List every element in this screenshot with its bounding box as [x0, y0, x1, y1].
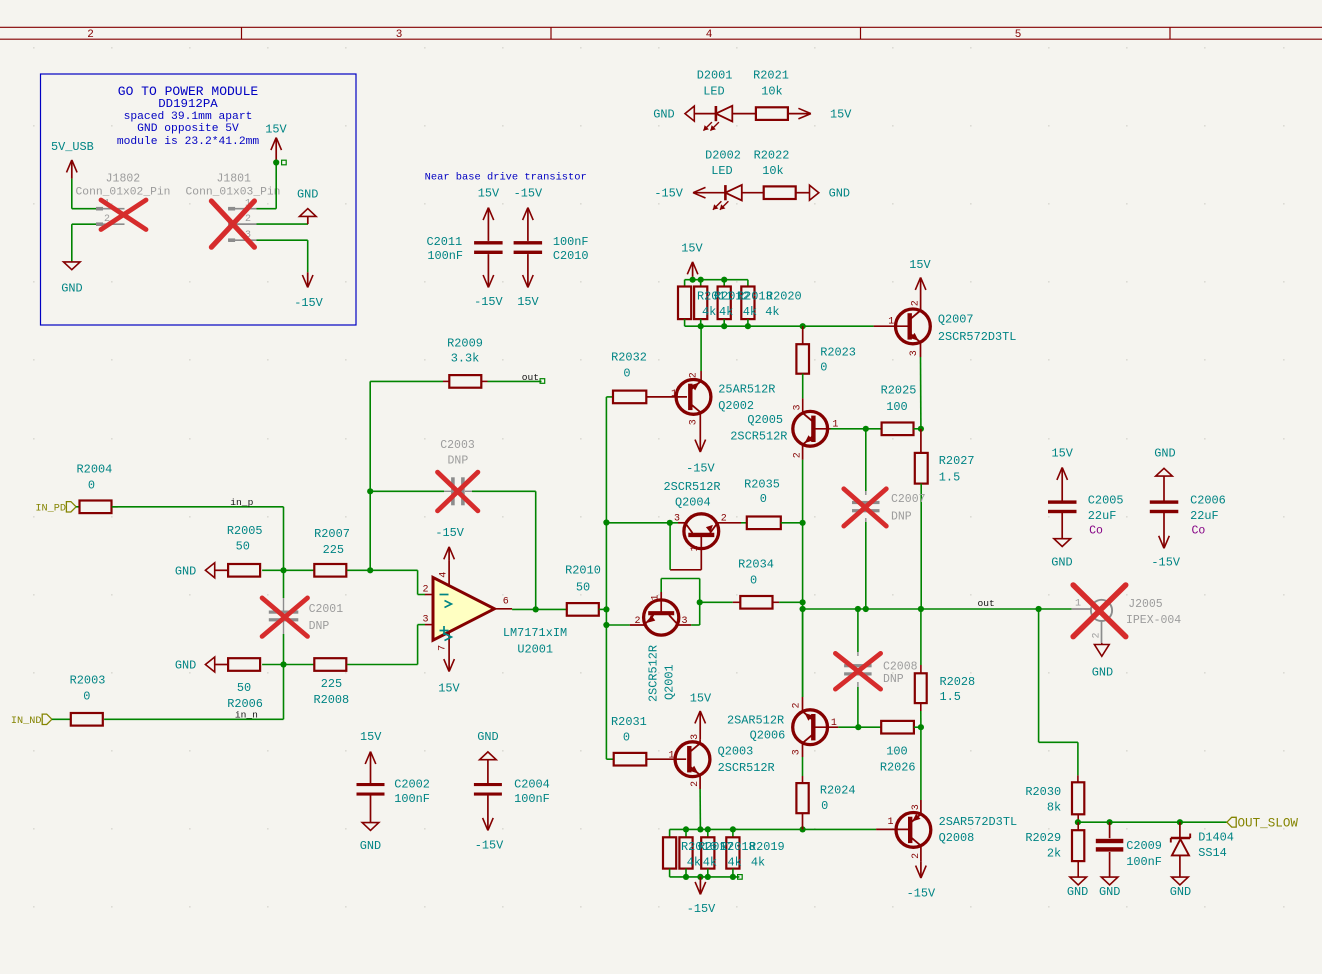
svg-text:2: 2 [87, 29, 94, 41]
svg-text:3: 3 [911, 804, 922, 810]
svg-text:in_n: in_n [235, 710, 258, 721]
svg-text:100: 100 [886, 400, 907, 414]
svg-text:Conn_01x03_Pin: Conn_01x03_Pin [186, 187, 281, 199]
svg-text:100nF: 100nF [514, 792, 550, 806]
svg-text:15V: 15V [681, 242, 703, 256]
svg-text:4k: 4k [703, 856, 717, 870]
svg-text:0: 0 [623, 731, 630, 745]
svg-text:2SAR512R: 2SAR512R [727, 713, 784, 727]
svg-text:U2001: U2001 [517, 642, 553, 656]
svg-text:LM7171xIM: LM7171xIM [503, 626, 567, 640]
svg-text:0: 0 [760, 492, 767, 506]
svg-text:GND: GND [829, 187, 850, 201]
svg-text:GND: GND [1092, 666, 1113, 680]
svg-text:1: 1 [831, 718, 837, 729]
svg-text:3: 3 [792, 749, 803, 755]
svg-text:R2021: R2021 [753, 69, 789, 83]
svg-text:22uF: 22uF [1190, 509, 1219, 523]
svg-text:2SCR512R: 2SCR512R [730, 430, 787, 444]
svg-text:R2027: R2027 [939, 454, 975, 468]
svg-text:C2006: C2006 [1190, 494, 1226, 508]
svg-text:4k: 4k [765, 305, 779, 319]
svg-text:3: 3 [909, 350, 920, 356]
svg-text:8k: 8k [1047, 800, 1061, 814]
svg-text:GND: GND [61, 282, 82, 296]
svg-text:7: 7 [438, 645, 449, 651]
svg-text:25AR512R: 25AR512R [718, 383, 775, 397]
svg-text:2SAR572D3TL: 2SAR572D3TL [939, 815, 1018, 829]
svg-text:-15V: -15V [907, 886, 936, 900]
svg-text:GND: GND [175, 564, 196, 578]
svg-text:15V: 15V [830, 108, 852, 122]
svg-text:DD1912PA: DD1912PA [158, 97, 218, 111]
svg-text:2SCR512R: 2SCR512R [663, 480, 720, 494]
svg-text:Co: Co [1089, 525, 1103, 538]
svg-text:D2002: D2002 [705, 148, 741, 162]
svg-text:15V: 15V [1051, 446, 1073, 460]
svg-text:LED: LED [711, 164, 732, 178]
svg-text:100nF: 100nF [427, 249, 463, 263]
svg-text:1: 1 [690, 545, 701, 551]
svg-text:4: 4 [706, 29, 713, 41]
svg-text:C2002: C2002 [394, 777, 430, 791]
svg-text:in_p: in_p [230, 497, 253, 508]
svg-text:DNP: DNP [309, 620, 330, 633]
svg-text:2k: 2k [1047, 846, 1061, 860]
svg-text:module is 23.2*41.2mm: module is 23.2*41.2mm [117, 136, 260, 148]
svg-text:C2003: C2003 [440, 439, 475, 452]
svg-text:3: 3 [793, 404, 804, 410]
svg-text:2: 2 [689, 372, 700, 378]
svg-text:OUT_SLOW: OUT_SLOW [1238, 816, 1299, 830]
svg-text:IN_PD: IN_PD [35, 503, 66, 514]
svg-text:2: 2 [245, 214, 251, 225]
svg-text:4k: 4k [719, 305, 733, 319]
svg-text:GND: GND [653, 108, 674, 122]
svg-text:R2030: R2030 [1025, 785, 1061, 799]
svg-text:IPEX-004: IPEX-004 [1126, 614, 1181, 627]
svg-text:3: 3 [682, 616, 688, 627]
svg-text:DNP: DNP [448, 454, 469, 467]
svg-text:GND: GND [360, 839, 381, 853]
svg-text:-15V: -15V [474, 295, 503, 309]
svg-text:100nF: 100nF [553, 235, 589, 249]
svg-text:GND opposite 5V: GND opposite 5V [137, 123, 239, 135]
svg-text:R2026: R2026 [880, 761, 916, 775]
svg-text:4k: 4k [702, 305, 716, 319]
svg-text:50: 50 [576, 580, 590, 594]
svg-text:4k: 4k [687, 856, 701, 870]
svg-text:15V: 15V [517, 295, 539, 309]
svg-text:15V: 15V [265, 123, 287, 137]
svg-text:1.5: 1.5 [939, 471, 960, 485]
svg-text:3: 3 [690, 734, 701, 740]
svg-text:10k: 10k [762, 164, 783, 178]
svg-text:R2035: R2035 [744, 478, 780, 492]
svg-text:R2009: R2009 [447, 336, 483, 350]
svg-text:spaced 39.1mm apart: spaced 39.1mm apart [124, 111, 253, 123]
svg-text:out: out [522, 372, 539, 383]
svg-text:GND: GND [1099, 885, 1120, 899]
svg-text:1.5: 1.5 [940, 690, 961, 704]
svg-text:C2005: C2005 [1088, 494, 1124, 508]
svg-text:LED: LED [703, 85, 724, 99]
svg-text:15V: 15V [438, 682, 460, 696]
svg-text:GND: GND [1051, 555, 1072, 569]
svg-text:-15V: -15V [686, 462, 715, 476]
svg-text:R2007: R2007 [314, 527, 350, 541]
svg-text:2: 2 [690, 781, 701, 787]
svg-text:GND: GND [297, 188, 318, 202]
svg-text:DNP: DNP [891, 511, 912, 524]
svg-text:J1802: J1802 [106, 173, 141, 186]
svg-text:1: 1 [671, 389, 677, 400]
svg-text:C2001: C2001 [309, 603, 344, 616]
svg-text:2: 2 [911, 853, 922, 859]
svg-text:3.3k: 3.3k [451, 352, 480, 366]
svg-text:R2025: R2025 [881, 383, 917, 397]
svg-text:R2020: R2020 [766, 290, 802, 304]
svg-text:-15V: -15V [1151, 555, 1180, 569]
svg-text:2SCR572D3TL: 2SCR572D3TL [938, 330, 1017, 344]
svg-text:2: 2 [1092, 632, 1103, 638]
svg-text:1: 1 [651, 594, 662, 600]
svg-text:Q2001: Q2001 [663, 664, 677, 700]
svg-text:100nF: 100nF [394, 792, 430, 806]
svg-text:R2019: R2019 [749, 840, 785, 854]
svg-text:J1801: J1801 [216, 173, 251, 186]
svg-text:1: 1 [887, 817, 893, 828]
svg-text:3: 3 [422, 615, 428, 626]
svg-text:4k: 4k [743, 305, 757, 319]
svg-text:GND: GND [1154, 446, 1175, 460]
svg-text:C2008: C2008 [883, 660, 918, 673]
svg-text:GND: GND [1170, 885, 1191, 899]
svg-text:R2032: R2032 [611, 351, 647, 365]
svg-text:225: 225 [321, 677, 342, 691]
svg-text:R2031: R2031 [611, 715, 647, 729]
svg-text:2SCR512R: 2SCR512R [718, 761, 775, 775]
svg-text:R2003: R2003 [70, 674, 106, 688]
svg-text:R2006: R2006 [227, 697, 263, 711]
svg-text:-15V: -15V [514, 186, 543, 200]
svg-text:DNP: DNP [883, 673, 904, 686]
svg-text:15V: 15V [478, 186, 500, 200]
svg-text:0: 0 [750, 574, 757, 588]
svg-text:-15V: -15V [435, 526, 464, 540]
svg-text:50: 50 [237, 681, 251, 695]
svg-text:Q2002: Q2002 [718, 399, 754, 413]
svg-text:R2010: R2010 [565, 563, 601, 577]
svg-text:Q2005: Q2005 [747, 413, 783, 427]
svg-text:22uF: 22uF [1088, 509, 1117, 523]
svg-text:C2009: C2009 [1126, 839, 1162, 853]
svg-text:3: 3 [396, 29, 403, 41]
svg-text:GND: GND [175, 659, 196, 673]
svg-text:R2004: R2004 [77, 462, 113, 476]
svg-text:50: 50 [236, 540, 250, 554]
svg-text:4: 4 [439, 572, 450, 578]
svg-text:3: 3 [674, 513, 680, 524]
svg-text:R2028: R2028 [940, 675, 976, 689]
svg-text:2: 2 [911, 300, 922, 306]
svg-text:Near base drive transistor: Near base drive transistor [425, 171, 587, 183]
svg-text:Co: Co [1192, 525, 1206, 538]
svg-text:6: 6 [503, 597, 509, 608]
svg-text:1: 1 [668, 751, 674, 762]
svg-text:100: 100 [886, 745, 907, 759]
svg-text:0: 0 [820, 361, 827, 375]
svg-text:5V_USB: 5V_USB [51, 140, 94, 154]
svg-text:2SCR512R: 2SCR512R [647, 645, 661, 702]
svg-text:1: 1 [832, 420, 838, 431]
svg-text:0: 0 [88, 479, 95, 493]
svg-text:Conn_01x02_Pin: Conn_01x02_Pin [76, 187, 171, 199]
svg-text:-15V: -15V [687, 902, 716, 916]
svg-text:R2024: R2024 [820, 784, 856, 798]
svg-text:C2004: C2004 [514, 777, 550, 791]
svg-text:R2022: R2022 [754, 148, 790, 162]
svg-text:C2010: C2010 [553, 249, 589, 263]
svg-text:1: 1 [1075, 599, 1081, 610]
svg-text:D1404: D1404 [1198, 830, 1234, 844]
svg-text:15V: 15V [909, 258, 931, 272]
svg-text:R2023: R2023 [820, 345, 856, 359]
svg-text:-15V: -15V [654, 187, 683, 201]
svg-text:2: 2 [792, 702, 803, 708]
svg-text:4k: 4k [751, 856, 765, 870]
svg-text:0: 0 [83, 690, 90, 704]
svg-text:15V: 15V [690, 691, 712, 705]
svg-text:Q2006: Q2006 [750, 729, 786, 743]
svg-text:C2007: C2007 [891, 493, 926, 506]
svg-text:225: 225 [323, 543, 344, 557]
svg-text:2: 2 [793, 452, 804, 458]
svg-text:out: out [978, 598, 995, 609]
svg-text:Q2004: Q2004 [675, 496, 711, 510]
svg-text:R2008: R2008 [313, 693, 349, 707]
svg-text:2: 2 [422, 585, 428, 596]
svg-text:SS14: SS14 [1198, 846, 1227, 860]
svg-text:D2001: D2001 [697, 69, 733, 83]
svg-text:IN_ND: IN_ND [11, 716, 42, 727]
svg-text:10k: 10k [761, 85, 782, 99]
svg-text:-15V: -15V [294, 296, 323, 310]
svg-text:15V: 15V [360, 730, 382, 744]
svg-text:0: 0 [623, 367, 630, 381]
svg-text:R2005: R2005 [227, 524, 263, 538]
svg-text:100nF: 100nF [1126, 855, 1162, 869]
svg-text:-15V: -15V [475, 839, 504, 853]
svg-text:4k: 4k [728, 856, 742, 870]
svg-text:Q2007: Q2007 [938, 313, 974, 327]
svg-text:5: 5 [1015, 29, 1022, 41]
svg-text:3: 3 [689, 419, 700, 425]
svg-text:GND: GND [477, 730, 498, 744]
svg-text:Q2003: Q2003 [718, 744, 754, 758]
svg-text:R2029: R2029 [1025, 831, 1061, 845]
svg-text:C2011: C2011 [427, 235, 463, 249]
svg-text:2: 2 [634, 616, 640, 627]
svg-text:Q2008: Q2008 [939, 831, 975, 845]
svg-text:2: 2 [721, 513, 727, 524]
svg-text:GND: GND [1067, 885, 1088, 899]
svg-text:J2005: J2005 [1128, 598, 1163, 611]
svg-text:0: 0 [821, 799, 828, 813]
svg-text:1: 1 [888, 316, 894, 327]
svg-text:R2034: R2034 [738, 557, 774, 571]
